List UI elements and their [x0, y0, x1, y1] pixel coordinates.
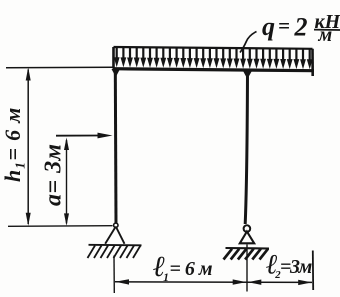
svg-text:м: м: [318, 24, 333, 46]
extension line below left column: [113, 256, 115, 294]
right support pin: [244, 225, 251, 232]
right support hatching: [224, 249, 269, 260]
extension line: base level left: [8, 225, 113, 228]
right column: [245, 71, 247, 224]
leader line from q label to load: [240, 32, 257, 53]
left support triangle: [105, 227, 124, 244]
wire: distributed-load top line: [114, 47, 313, 49]
left support hatching: [88, 246, 141, 259]
wire: load right end bar: [311, 49, 314, 76]
load arrows q: [114, 47, 313, 69]
left support ground line: [89, 244, 142, 247]
svg-text:=3м: =3м: [280, 256, 313, 278]
beam: top horizontal member: [113, 69, 315, 71]
left column top fillet: [112, 69, 121, 77]
extension line below right column: [246, 245, 248, 292]
right support triangle: [240, 232, 254, 244]
svg-text:a= 3м: a= 3м: [41, 143, 67, 206]
right support ground line: [226, 247, 270, 250]
svg-text:=: =: [278, 14, 290, 38]
right end tick: [312, 251, 314, 291]
left column: [114, 69, 118, 224]
svg-text:h₁= 6 м: h₁= 6 м: [0, 107, 25, 182]
svg-text:2: 2: [294, 13, 308, 42]
svg-text:q: q: [262, 12, 275, 41]
dimension a: vertical line with arrows: [66, 140, 68, 224]
left support pin: [114, 223, 118, 227]
bottom dimension line: [115, 281, 312, 284]
extension line: top (beam level, left): [6, 66, 113, 69]
force arrow on left column: [56, 135, 100, 137]
dimension h1: vertical line with arrows: [27, 70, 29, 225]
right column top fillet: [243, 71, 252, 80]
wire: load left end bar: [112, 47, 115, 68]
svg-text:= 6 м: = 6 м: [170, 258, 213, 280]
